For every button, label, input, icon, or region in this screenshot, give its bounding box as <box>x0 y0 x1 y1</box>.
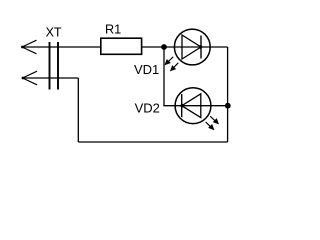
wire: bottom return <box>78 141 227 143</box>
node B junction dot <box>225 103 231 109</box>
wire: left branch to VD2 anode side <box>163 105 227 107</box>
svg-text:VD2: VD2 <box>135 101 160 116</box>
wire: XT pin 2 to left drop <box>23 77 79 79</box>
wire: R1 to node A <box>142 46 228 48</box>
VD2 light arrow 2 <box>206 122 215 130</box>
connector XT pin 2 (bottom plug arrow) <box>22 71 37 85</box>
svg-text:XT: XT <box>46 26 62 40</box>
svg-text:VD1: VD1 <box>134 62 159 77</box>
node A junction dot <box>161 44 167 50</box>
wire: left drop vertical <box>77 78 79 142</box>
svg-text:R1: R1 <box>105 22 121 36</box>
wire: right bus vertical <box>227 47 229 142</box>
wire: XT pin 1 to resistor R1 <box>22 46 101 48</box>
wire: node A down to VD2 row <box>163 47 165 106</box>
resistor R1 <box>101 38 142 54</box>
connector XT mating double bar <box>50 42 59 90</box>
LED VD1 <box>165 29 211 71</box>
VD2 light arrow 1 <box>210 116 219 124</box>
VD1 light arrow 1 <box>165 57 174 66</box>
LED VD2 <box>175 88 219 130</box>
VD1 light arrow 2 <box>170 63 178 72</box>
connector XT pin 1 (top plug arrow) <box>21 40 36 54</box>
